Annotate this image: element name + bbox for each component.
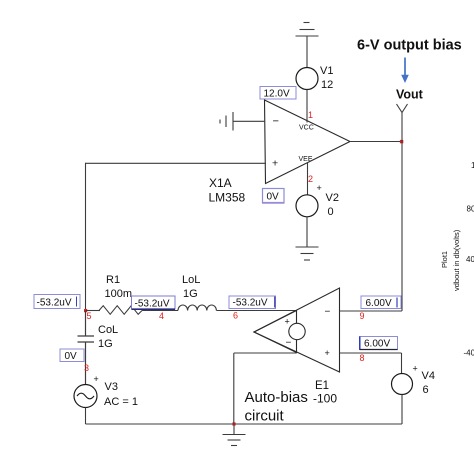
- E1 inner polarity marks: [285, 317, 292, 349]
- resistor R1: [99, 306, 142, 315]
- probe box 0V (opamp): [262, 189, 285, 204]
- probe box -53.2uV (node 5): [34, 295, 80, 309]
- label R1 100m: [105, 274, 133, 300]
- svg-text:3: 3: [84, 363, 89, 373]
- svg-text:circuit: circuit: [245, 408, 285, 425]
- annotation blue arrow: [401, 58, 409, 84]
- wire E1 minus input to output node (node 9): [340, 310, 403, 312]
- svg-text:AC = 1: AC = 1: [104, 396, 138, 408]
- svg-text:−: −: [325, 307, 331, 318]
- svg-text:0V: 0V: [65, 351, 78, 362]
- svg-text:X1A: X1A: [209, 176, 232, 190]
- svg-text:−: −: [273, 115, 279, 127]
- svg-text:+: +: [94, 374, 99, 384]
- svg-text:CoL: CoL: [98, 324, 118, 336]
- svg-text:1: 1: [308, 110, 313, 120]
- svg-text:+: +: [317, 183, 322, 193]
- svg-text:2: 2: [308, 174, 313, 184]
- node 5 junction dot: [84, 309, 87, 312]
- svg-text:+: +: [413, 364, 418, 374]
- svg-text:12: 12: [321, 79, 333, 91]
- wire node5 to R1: [86, 310, 101, 312]
- svg-text:LM358: LM358: [209, 191, 246, 205]
- probe box 6.00V (node 8): [360, 337, 398, 350]
- inductor LoL: [178, 305, 216, 311]
- wire ground to V1: [306, 36, 308, 68]
- wire opamp output: [350, 141, 402, 143]
- wire VEE pin to V2: [307, 163, 309, 196]
- svg-text:+: +: [285, 317, 290, 327]
- E1 VCVS outer triangle: [254, 288, 340, 372]
- svg-text:6.00V: 6.00V: [366, 298, 392, 309]
- probe box -53.2uV (node 6): [229, 296, 276, 309]
- wire node 8 down to V4: [401, 353, 403, 374]
- svg-text:Plot1: Plot1: [440, 251, 449, 268]
- svg-text:1G: 1G: [98, 338, 113, 350]
- E1 source circle: [289, 323, 305, 339]
- voltage source V3 (AC): [74, 385, 97, 408]
- label + V2 0: [317, 183, 339, 218]
- svg-text:VEE: VEE: [299, 156, 313, 163]
- op-amp U1 X1A LM358 triangle: [265, 100, 351, 184]
- label LoL 1G: [182, 274, 200, 300]
- svg-text:12.0V: 12.0V: [264, 89, 290, 100]
- voltage source V2: [296, 195, 318, 217]
- E1 feedback wire left (vertical to bottom rail): [233, 353, 235, 424]
- wire LoL to E1: [217, 310, 297, 312]
- svg-text:−: −: [286, 338, 292, 349]
- svg-text:5: 5: [87, 311, 92, 321]
- ground GND2 (below V2): [296, 247, 319, 260]
- probe box 12.0V: [260, 87, 296, 100]
- label X1A LM358: [209, 176, 246, 205]
- E1 inner triangle: [254, 311, 297, 353]
- svg-text:V2: V2: [326, 192, 339, 204]
- wire V2 to ground: [306, 217, 308, 247]
- svg-text:LoL: LoL: [182, 274, 200, 286]
- voltage source V1: [296, 68, 318, 90]
- voltage source V4: [392, 374, 413, 395]
- svg-text:-53.2uV: -53.2uV: [37, 298, 72, 309]
- svg-text:-53.2uV: -53.2uV: [233, 298, 268, 309]
- svg-text:8: 8: [360, 353, 365, 363]
- junction dot at bottom ground: [232, 422, 235, 425]
- svg-text:V1: V1: [320, 65, 333, 77]
- svg-text:9: 9: [360, 311, 365, 321]
- svg-text:Auto-bias: Auto-bias: [245, 389, 308, 406]
- svg-text:0V: 0V: [267, 192, 280, 203]
- ground GND3 (bottom): [223, 424, 246, 446]
- junction dot at output node: [400, 140, 403, 143]
- label CoL 1G: [98, 324, 118, 350]
- E1 feedback wire left (horizontal): [234, 352, 297, 354]
- ground at inverting input (rotated left): [220, 112, 233, 131]
- svg-text:E1: E1: [315, 380, 329, 392]
- svg-text:6-V output bias: 6-V output bias: [357, 38, 462, 54]
- capacitor CoL: [78, 311, 95, 385]
- label V1 12: [320, 65, 333, 91]
- svg-text:R1: R1: [106, 274, 120, 286]
- svg-text:vdbout in db(volts): vdbout in db(volts): [452, 229, 461, 291]
- svg-text:-40: -40: [464, 349, 474, 358]
- svg-text:Vout: Vout: [396, 88, 424, 102]
- svg-text:V4: V4: [422, 370, 435, 382]
- svg-text:100m: 100m: [105, 288, 133, 300]
- svg-text:VCC: VCC: [299, 125, 314, 132]
- wire V1 to opamp VCC pin: [306, 90, 308, 123]
- wire noninverting input (horizontal): [86, 162, 267, 164]
- svg-text:1G: 1G: [183, 288, 198, 300]
- svg-text:-100: -100: [313, 392, 337, 406]
- wire left vertical (feedback to node 5): [85, 163, 87, 311]
- probe box 0V (node 3): [60, 349, 84, 362]
- ground GND1 (top, above V1, inverted): [296, 23, 319, 37]
- label + V4 6: [413, 364, 435, 397]
- label + V3 AC = 1: [94, 374, 138, 408]
- svg-text:80: 80: [467, 205, 474, 214]
- annotation Auto-bias circuit: [245, 389, 308, 425]
- svg-text:V3: V3: [105, 381, 118, 393]
- probe box 6.00V (node 9): [361, 296, 401, 309]
- wire output node down to E1: [401, 142, 403, 312]
- probe box -53.2uV (node 4): [132, 296, 176, 310]
- wire E1 plus input to V4 (node 8): [340, 352, 402, 354]
- svg-text:-53.2uV: -53.2uV: [135, 299, 170, 310]
- svg-text:6.00V: 6.00V: [364, 339, 390, 350]
- svg-text:+: +: [272, 158, 278, 170]
- bottom rail wire: [86, 423, 403, 425]
- wire V4 to bottom rail: [401, 395, 403, 425]
- wire V3 to bottom rail: [85, 408, 87, 425]
- svg-text:6: 6: [423, 384, 429, 396]
- wire ground to inverting input: [233, 120, 265, 122]
- svg-text:+: +: [325, 348, 330, 358]
- svg-text:6: 6: [233, 310, 238, 320]
- svg-text:4: 4: [159, 311, 164, 321]
- wire R1 to LoL: [142, 310, 178, 312]
- svg-text:0: 0: [328, 206, 334, 218]
- label E1 -100: [313, 380, 337, 406]
- svg-text:40: 40: [466, 255, 474, 264]
- Vout port symbol: [397, 104, 408, 142]
- E1 input polarity marks: [325, 307, 331, 358]
